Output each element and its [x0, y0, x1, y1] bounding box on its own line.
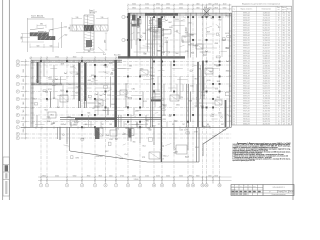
svg-text:3162: 3162: [163, 156, 167, 158]
svg-text:Пм6: Пм6: [159, 107, 162, 109]
svg-text:254: 254: [288, 113, 291, 115]
svg-text:1337: 1337: [125, 106, 129, 108]
svg-text:Пм3: Пм3: [44, 109, 47, 111]
svg-text:8: 8: [127, 185, 128, 187]
svg-text:510: 510: [101, 17, 104, 19]
svg-text:1642: 1642: [99, 156, 103, 158]
svg-text:ящего комплекта и заданиями ра: ящего комплекта и заданиями разделов ОВ,…: [233, 160, 256, 162]
svg-text:0.90: 0.90: [137, 33, 140, 35]
svg-text:30,2: 30,2: [282, 30, 285, 32]
body top wall: [31, 59, 122, 61]
svg-text:20: 20: [278, 116, 280, 118]
svg-text:КЖ37-39: КЖ37-39: [243, 17, 250, 19]
detail 2 band hatching: [73, 16, 108, 49]
svg-text:КЖ93-79: КЖ93-79: [243, 96, 250, 98]
svg-text:Пм6: Пм6: [205, 51, 208, 53]
svg-text:10: 10: [233, 35, 235, 37]
svg-text:4000: 4000: [166, 176, 170, 178]
svg-text:1016: 1016: [180, 129, 184, 131]
svg-text:7732: 7732: [125, 97, 129, 99]
svg-text:9015: 9015: [97, 107, 101, 109]
svg-text:КЖ43-27: КЖ43-27: [243, 45, 250, 47]
svg-text:30: 30: [233, 86, 235, 88]
svg-text:37-881.53: 37-881.53: [263, 23, 270, 25]
svg-text:10: 10: [153, 185, 155, 187]
svg-text:6850: 6850: [192, 45, 196, 47]
svg-text:4908: 4908: [215, 43, 219, 45]
svg-text:Лист: Лист: [284, 191, 287, 193]
svg-text:14,5: 14,5: [282, 58, 285, 60]
bottom dimension chain lines: [38, 176, 232, 184]
window ticks on right wall: [229, 16, 232, 121]
svg-text:415: 415: [215, 89, 218, 91]
lower extension left vertical: [60, 127, 228, 162]
right dense wall cluster x=197-204: [197, 62, 199, 127]
svg-text:37: 37: [233, 103, 235, 105]
svg-text:КЖ37-61: КЖ37-61: [243, 98, 250, 100]
svg-text:Ж: Ж: [17, 107, 19, 109]
svg-text:6916: 6916: [222, 130, 226, 132]
svg-text:68-736.82: 68-736.82: [263, 118, 270, 120]
svg-text:Разраб: Разраб: [232, 189, 236, 191]
svg-text:1292: 1292: [110, 74, 114, 76]
table header row line: [232, 11, 292, 13]
svg-text:4700: 4700: [120, 176, 124, 178]
svg-text:618: 618: [51, 124, 54, 126]
svg-text:89,9: 89,9: [282, 38, 285, 40]
svg-text:510: 510: [76, 17, 79, 19]
svg-text:556: 556: [288, 35, 291, 37]
svg-text:16: 16: [278, 83, 280, 85]
svg-text:929: 929: [288, 45, 291, 47]
svg-text:708: 708: [288, 53, 291, 55]
svg-text:439: 439: [288, 17, 291, 19]
svg-text:6407: 6407: [169, 22, 173, 24]
svg-text:Листов: Листов: [289, 191, 294, 193]
svg-text:Пм6: Пм6: [95, 94, 98, 96]
svg-text:958: 958: [288, 98, 291, 100]
svg-text:Пм3: Пм3: [77, 73, 80, 75]
svg-text:6656: 6656: [151, 97, 155, 99]
svg-text:856: 856: [133, 142, 136, 144]
svg-text:530: 530: [50, 45, 53, 47]
svg-text:36: 36: [278, 53, 280, 55]
svg-text:95-765.57: 95-765.57: [263, 73, 270, 75]
svg-text:254: 254: [81, 138, 84, 140]
svg-text:14: 14: [233, 45, 235, 47]
svg-text:КЖ50-17: КЖ50-17: [243, 106, 250, 108]
svg-text:7778: 7778: [142, 157, 146, 159]
svg-text:13-859.45: 13-859.45: [263, 12, 270, 14]
svg-text:380: 380: [40, 24, 43, 26]
svg-text:588: 588: [109, 124, 112, 126]
svg-text:4018: 4018: [225, 33, 229, 35]
title block texts: [232, 186, 294, 196]
title block right cells: [263, 190, 294, 193]
svg-text:6788: 6788: [120, 158, 124, 160]
svg-text:48-726.93: 48-726.93: [263, 123, 270, 125]
upper wing grid bubbles: [122, 15, 125, 41]
svg-text:Лист: Лист: [240, 186, 243, 188]
left dimension numbers: [23, 69, 25, 132]
title block revision columns: [231, 185, 263, 196]
svg-text:1981: 1981: [225, 16, 229, 18]
svg-text:41: 41: [278, 38, 280, 40]
svg-text:39: 39: [233, 108, 235, 110]
small shaft boxes: [48, 20, 222, 159]
svg-text:КЖ18-78: КЖ18-78: [243, 68, 250, 70]
svg-text:Ведомость деталей стен техподп: Ведомость деталей стен техподполья: [242, 3, 280, 6]
body horizontal partitions: [35, 69, 219, 125]
svg-text:894: 894: [288, 86, 291, 88]
svg-text:3125: 3125: [143, 101, 147, 103]
svg-text:8791: 8791: [48, 89, 52, 91]
svg-text:11: 11: [233, 38, 235, 40]
svg-text:КЖ84-61: КЖ84-61: [243, 48, 250, 50]
svg-text:1400: 1400: [196, 3, 200, 5]
svg-text:29-742.30: 29-742.30: [263, 50, 270, 52]
svg-text:2500: 2500: [214, 3, 218, 5]
labels above body bottom line: [51, 124, 224, 126]
svg-text:2100: 2100: [145, 176, 149, 178]
svg-text:1600: 1600: [214, 176, 218, 178]
svg-text:740: 740: [288, 70, 291, 72]
svg-text:59,9: 59,9: [282, 25, 285, 27]
svg-text:КЖ66-79: КЖ66-79: [243, 123, 250, 125]
svg-text:КЖ49-61: КЖ49-61: [243, 73, 250, 75]
svg-text:74-880.32: 74-880.32: [263, 58, 270, 60]
horizontal wall y=84 (dark left segment): [31, 82, 62, 84]
svg-text:КЖ68-46: КЖ68-46: [243, 101, 250, 103]
svg-text:Пм9: Пм9: [125, 84, 128, 86]
svg-text:37-159.84: 37-159.84: [263, 103, 270, 105]
vertical grid axis lines: [41, 11, 220, 183]
svg-text:Г: Г: [17, 127, 18, 129]
svg-text:350: 350: [172, 124, 175, 126]
svg-text:133: 133: [288, 73, 291, 75]
svg-text:920: 920: [37, 45, 40, 47]
svg-text:868: 868: [98, 134, 101, 136]
left row grid bubbles: [16, 60, 19, 140]
svg-text:9: 9: [139, 185, 140, 187]
svg-text:4200: 4200: [156, 176, 160, 178]
svg-text:Пм2: Пм2: [64, 35, 67, 37]
svg-text:26-231.94: 26-231.94: [263, 68, 270, 70]
svg-text:7400: 7400: [23, 109, 25, 113]
svg-text:44: 44: [278, 50, 280, 52]
svg-text:61: 61: [288, 93, 290, 95]
detail drawing 2 (wall crossing section): [72, 15, 108, 50]
stair landing dark slab: [151, 99, 162, 101]
svg-text:шт: шт: [278, 9, 280, 11]
wall on axis x=86: [84, 62, 86, 108]
svg-text:5900: 5900: [223, 7, 227, 9]
svg-text:501: 501: [161, 100, 164, 102]
svg-text:5565: 5565: [143, 33, 147, 35]
detail 2 dimension chains: [69, 17, 108, 53]
svg-text:7000: 7000: [23, 116, 25, 120]
svg-text:3090: 3090: [217, 81, 221, 83]
svg-text:281: 281: [288, 68, 291, 70]
lower extension bottom wall: [148, 161, 200, 163]
svg-text:1203: 1203: [210, 116, 214, 118]
svg-text:3900: 3900: [87, 176, 91, 178]
svg-text:2831: 2831: [146, 120, 150, 122]
svg-text:25: 25: [233, 73, 235, 75]
svg-text:3843: 3843: [226, 71, 230, 73]
svg-text:7393: 7393: [70, 117, 74, 119]
dark wall core x=84: [84, 63, 86, 101]
svg-text:33: 33: [278, 106, 280, 108]
svg-text:6400: 6400: [23, 101, 25, 105]
wing top wall: [128, 12, 232, 14]
svg-text:52,5: 52,5: [282, 40, 285, 42]
svg-text:44: 44: [233, 121, 235, 123]
svg-text:48: 48: [278, 103, 280, 105]
svg-text:28: 28: [278, 15, 280, 17]
svg-text:26-457.18: 26-457.18: [263, 121, 270, 123]
svg-text:2339: 2339: [107, 95, 111, 97]
svg-text:18-446.12: 18-446.12: [263, 75, 270, 77]
svg-text:4310: 4310: [218, 113, 222, 115]
svg-text:18,7: 18,7: [282, 91, 285, 93]
level mark labels near bottom line: [152, 125, 210, 128]
svg-text:КЖ77-87: КЖ77-87: [243, 70, 250, 72]
svg-text:Пм4: Пм4: [190, 35, 193, 37]
detail 1 labels: [21, 16, 68, 48]
title block signature smudges: [232, 191, 261, 195]
svg-text:1200: 1200: [208, 3, 212, 5]
svg-text:15,6: 15,6: [282, 63, 285, 65]
svg-text:Пм9: Пм9: [218, 19, 221, 21]
svg-text:4658: 4658: [122, 134, 126, 136]
svg-text:33-170.86: 33-170.86: [263, 108, 270, 110]
svg-text:Пм3: Пм3: [163, 105, 166, 107]
svg-text:16: 16: [278, 12, 280, 14]
sheet frame outer left line: [2, 0, 4, 200]
detail 2 lower dark insert: [86, 40, 92, 47]
svg-text:монолит. уч.: монолит. уч.: [38, 31, 47, 33]
svg-text:Пс3: Пс3: [103, 54, 106, 56]
svg-text:29: 29: [278, 91, 280, 93]
svg-text:48,5: 48,5: [282, 121, 285, 123]
svg-text:Р: Р: [270, 191, 271, 193]
svg-text:КЖ43-60: КЖ43-60: [243, 116, 250, 118]
svg-text:777: 777: [158, 124, 161, 126]
svg-text:229: 229: [288, 80, 291, 82]
svg-text:11: 11: [161, 185, 163, 187]
svg-text:731: 731: [288, 28, 291, 30]
svg-text:24: 24: [278, 60, 280, 62]
svg-text:380: 380: [69, 27, 71, 30]
svg-text:4353: 4353: [135, 111, 139, 113]
svg-text:475: 475: [136, 124, 139, 126]
svg-text:2197: 2197: [184, 130, 188, 132]
svg-text:4684: 4684: [174, 121, 178, 123]
svg-text:78,3: 78,3: [282, 35, 285, 37]
svg-text:4900: 4900: [156, 3, 160, 5]
svg-text:7465: 7465: [129, 65, 133, 67]
svg-text:41: 41: [233, 113, 235, 115]
svg-text:4900: 4900: [189, 176, 193, 178]
svg-text:85-384.10: 85-384.10: [263, 20, 270, 22]
wing corner dark rects: [132, 15, 136, 21]
svg-text:КЖ74-43: КЖ74-43: [243, 121, 250, 123]
svg-text:5900: 5900: [73, 176, 77, 178]
svg-text:171: 171: [288, 121, 291, 123]
svg-text:35: 35: [278, 45, 280, 47]
svg-text:3800: 3800: [132, 7, 136, 9]
top dimension numbers: [132, 3, 226, 9]
columns (small dark squares): [40, 16, 221, 128]
svg-text:Марка элемента: Марка элемента: [241, 8, 253, 10]
window ticks on left wall: [30, 63, 33, 123]
svg-text:2,2: 2,2: [283, 53, 285, 55]
svg-text:47,4: 47,4: [282, 28, 285, 30]
svg-text:КЖ75-20: КЖ75-20: [243, 108, 250, 110]
svg-text:6765: 6765: [151, 20, 155, 22]
svg-text:КЖ41-30: КЖ41-30: [243, 38, 250, 40]
svg-text:Пм9: Пм9: [103, 94, 106, 96]
svg-text:6110: 6110: [207, 80, 210, 82]
long body bottom line: [21, 126, 232, 128]
svg-text:224: 224: [288, 33, 291, 35]
svg-text:КЖ18-15: КЖ18-15: [243, 30, 250, 32]
svg-text:5174: 5174: [148, 29, 152, 31]
svg-text:3900: 3900: [55, 56, 59, 58]
svg-text:4983: 4983: [112, 70, 116, 72]
svg-text:КЖ34-47: КЖ34-47: [243, 103, 250, 105]
svg-text:4059: 4059: [88, 80, 92, 82]
svg-text:17: 17: [233, 53, 235, 55]
horizontal grid axis lines: [21, 17, 232, 138]
svg-text:19-626.40: 19-626.40: [263, 80, 270, 82]
svg-text:69-488.44: 69-488.44: [263, 38, 270, 40]
svg-text:22: 22: [233, 65, 235, 67]
svg-text:502: 502: [288, 96, 291, 98]
svg-text:2325: 2325: [163, 119, 167, 121]
svg-text:КЖ45-69: КЖ45-69: [243, 93, 250, 95]
svg-text:678: 678: [53, 98, 56, 100]
svg-text:12: 12: [173, 185, 175, 187]
svg-text:234: 234: [288, 38, 291, 40]
svg-text:Фм2: Фм2: [152, 125, 155, 128]
window ticks on bottom line: [24, 126, 228, 129]
dark wing left wall core: [128, 13, 131, 57]
svg-text:5433: 5433: [162, 115, 166, 117]
svg-text:6041: 6041: [190, 86, 194, 88]
svg-text:98,3: 98,3: [282, 60, 285, 62]
svg-text:83-690.70: 83-690.70: [263, 83, 270, 85]
svg-text:КЖ23-41: КЖ23-41: [243, 91, 250, 93]
svg-text:887: 887: [221, 124, 224, 126]
svg-text:2,9: 2,9: [283, 123, 285, 125]
svg-text:Пм9: Пм9: [175, 53, 178, 55]
core wall pair: [150, 17, 152, 127]
svg-text:17-268.58: 17-268.58: [263, 98, 270, 100]
svg-text:(М 1:25): (М 1:25): [90, 13, 96, 15]
svg-text:8414: 8414: [214, 64, 218, 66]
svg-text:26-787.92: 26-787.92: [263, 116, 270, 118]
svg-text:42: 42: [233, 116, 235, 118]
svg-text:10,9: 10,9: [282, 118, 285, 120]
svg-text:Пм8: Пм8: [143, 53, 146, 55]
svg-text:7841: 7841: [50, 115, 54, 117]
svg-text:1463: 1463: [223, 39, 227, 41]
svg-text:6788: 6788: [194, 131, 198, 133]
svg-text:40: 40: [278, 28, 280, 30]
svg-text:89,4: 89,4: [282, 70, 285, 72]
svg-text:612: 612: [288, 75, 291, 77]
svg-text:82-635.50: 82-635.50: [263, 113, 270, 115]
svg-text:38: 38: [278, 75, 280, 77]
svg-text:3: 3: [66, 185, 67, 187]
wing left wall: [127, 13, 129, 57]
svg-text:4184: 4184: [201, 95, 205, 97]
svg-text:5100: 5100: [145, 3, 149, 5]
svg-text:Пм5: Пм5: [191, 53, 194, 55]
svg-text:Пм7: Пм7: [211, 114, 214, 116]
svg-text:32: 32: [278, 43, 280, 45]
svg-text:11: 11: [278, 20, 280, 22]
svg-text:90,7: 90,7: [282, 20, 285, 22]
dark wall core x=37: [37, 62, 39, 83]
svg-text:18: 18: [278, 80, 280, 82]
svg-text:871: 871: [288, 58, 291, 60]
svg-text:693: 693: [73, 124, 76, 126]
svg-text:358: 358: [288, 20, 291, 22]
svg-text:КЖ78-44: КЖ78-44: [243, 55, 250, 57]
detail 1 dimension lines: [21, 25, 64, 49]
svg-text:4983: 4983: [201, 92, 205, 94]
plan right wall: [228, 13, 230, 127]
svg-text:2000: 2000: [166, 3, 170, 5]
svg-text:КЖ55-54: КЖ55-54: [243, 25, 250, 27]
svg-text:КЖ45-68: КЖ45-68: [243, 33, 250, 35]
svg-text:5000: 5000: [179, 176, 183, 178]
svg-text:57600: 57600: [134, 179, 139, 181]
svg-text:33: 33: [233, 93, 235, 95]
svg-text:4500: 4500: [55, 176, 59, 178]
detail 1 slab B (hatched, stepped): [38, 36, 55, 39]
svg-text:7007: 7007: [183, 37, 187, 39]
svg-text:6800: 6800: [23, 129, 25, 133]
svg-text:5283: 5283: [109, 139, 113, 141]
svg-text:19: 19: [278, 55, 280, 57]
notes paragraph: [233, 142, 292, 162]
left margin stamp box: [3, 157, 9, 196]
wing sparse right verticals: [202, 14, 204, 58]
svg-text:5765: 5765: [147, 128, 151, 130]
svg-text:40: 40: [233, 111, 235, 113]
svg-text:КЖ25-82: КЖ25-82: [243, 111, 250, 113]
svg-text:829: 829: [288, 88, 291, 90]
svg-text:38: 38: [233, 106, 235, 108]
svg-text:23: 23: [233, 68, 235, 70]
svg-text:Изм: Изм: [232, 186, 234, 188]
svg-text:29,3: 29,3: [282, 12, 285, 14]
svg-text:34: 34: [233, 96, 235, 98]
svg-text:3800: 3800: [42, 176, 46, 178]
svg-text:4800: 4800: [214, 7, 218, 9]
table outer border: [232, 6, 292, 125]
svg-text:КЖ91-24: КЖ91-24: [243, 12, 250, 14]
svg-text:8464: 8464: [103, 110, 107, 112]
svg-text:32: 32: [233, 91, 235, 93]
svg-text:33: 33: [278, 48, 280, 50]
svg-text:80,2: 80,2: [282, 111, 285, 113]
svg-text:5980: 5980: [140, 69, 144, 71]
